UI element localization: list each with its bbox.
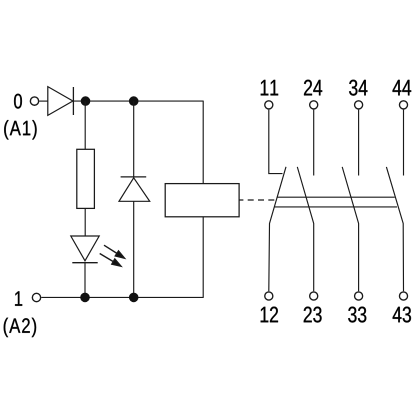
junction node J4 — [129, 293, 139, 303]
terminal label 0 — [14, 94, 22, 109]
contact 11 fixed wire with NC stop — [269, 110, 283, 174]
LED cathode bar — [72, 262, 97, 264]
contact terminal label 33 — [348, 307, 366, 323]
mechanical link dashed line from coil — [239, 199, 276, 201]
wire J2 to flyback diode D2 — [133, 101, 135, 177]
flyback diode D2 triangle cathode up — [119, 178, 150, 202]
wire terminal 0 to diode D1 — [39, 100, 48, 102]
contact terminal label 23 — [304, 307, 322, 323]
contact terminal label 12 — [261, 307, 278, 323]
contact terminal 44 circle — [399, 101, 407, 109]
contact terminal 12 circle — [265, 292, 273, 300]
contact terminal 33 circle — [355, 292, 363, 300]
wire coil K1 to bottom rail — [202, 217, 204, 298]
contact terminal 34 circle — [355, 101, 363, 109]
relay coil K1 — [165, 184, 239, 217]
diode D1 series diode anode left — [48, 87, 73, 116]
actuator bar upper — [277, 196, 395, 198]
contact 34 fixed wire — [358, 110, 360, 176]
wire R1 to LED — [84, 208, 86, 236]
contact terminal 11 circle — [265, 101, 273, 109]
LED light emission arrow 1 — [104, 245, 125, 258]
LED light emission arrow 2 — [100, 254, 121, 267]
contact 34-33 moving blade NO — [342, 167, 358, 291]
contact 24 fixed wire — [313, 110, 315, 176]
contact terminal 23 circle — [310, 292, 318, 300]
contact terminal label 24 — [304, 80, 322, 96]
wire D2 to bottom rail — [133, 201, 135, 297]
contact 24-23 moving blade NO — [297, 167, 313, 291]
contact terminal label 11 — [261, 80, 278, 95]
terminal label (A1) — [4, 120, 36, 139]
bottom rail wire — [41, 296, 203, 298]
top rail wire D1 to coil branch — [73, 100, 203, 102]
contact terminal 24 circle — [310, 101, 318, 109]
junction node J3 — [80, 293, 90, 303]
terminal label (A2) — [4, 318, 36, 337]
junction node J2 — [129, 96, 139, 106]
flyback diode D2 cathode bar — [121, 176, 147, 178]
resistor R1 — [77, 149, 95, 208]
contact 44 fixed wire — [403, 110, 405, 176]
contact 11-12 moving blade NC — [269, 167, 286, 291]
contact terminal 43 circle — [399, 292, 407, 300]
wire top rail to coil K1 — [202, 101, 204, 184]
contact terminal label 43 — [393, 307, 411, 323]
diode D1 cathode bar — [72, 87, 74, 115]
terminal label 1 — [15, 291, 22, 305]
junction node J1 — [81, 96, 91, 106]
terminal 0 circle — [30, 97, 38, 105]
contact 44-43 moving blade NO — [386, 167, 403, 291]
contact terminal label 44 — [393, 80, 412, 95]
LED triangle — [71, 236, 99, 261]
wire J1 to resistor R1 — [84, 101, 86, 149]
wire LED to bottom rail — [84, 263, 86, 298]
contact terminal label 34 — [349, 80, 367, 96]
actuator bar lower — [274, 206, 397, 208]
terminal 1 circle — [32, 293, 40, 301]
